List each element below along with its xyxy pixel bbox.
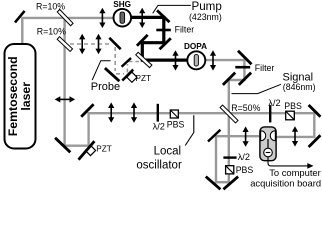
SHG crystal circle U1 bbox=[114, 9, 132, 27]
detector assembly (balanced photodetector) bbox=[260, 127, 276, 161]
mirror M9 probe to dichroic bbox=[122, 58, 131, 67]
PZT actuator (probe) bbox=[127, 72, 137, 82]
wire: dashed probe beam down bbox=[114, 47, 116, 71]
femtosecond laser box bbox=[5, 44, 36, 149]
mirror M16 detection arm up-to-right bbox=[208, 130, 220, 142]
filter F2 (signal) bbox=[235, 66, 250, 69]
beamsplitter R=10% BS2 bbox=[57, 37, 72, 52]
svg-text:Femtosecond: Femtosecond bbox=[6, 56, 20, 136]
pointer line for Probe label bbox=[92, 61, 110, 80]
mirror M20 right bottom bbox=[309, 135, 321, 147]
wire: left detection arm vertical bbox=[215, 135, 217, 183]
svg-text:λ/2: λ/2 bbox=[268, 98, 280, 108]
polarization arrow A11 (horizontal, LO down beam) bbox=[55, 96, 75, 102]
svg-text:Local: Local bbox=[154, 145, 182, 157]
polarization arrow A6 bbox=[210, 50, 216, 70]
polarization arrow A10 bbox=[292, 126, 298, 146]
wire: dashed probe beam right into dichroic bbox=[129, 61, 140, 63]
svg-text:PBS: PBS bbox=[167, 119, 185, 129]
wire: pump beam down through filter bbox=[162, 16, 165, 44]
mirror M18 bottom V right bbox=[223, 177, 238, 190]
mirror M1 top-left bbox=[15, 11, 25, 23]
svg-text:Probe: Probe bbox=[91, 81, 120, 93]
pointer line for Signal label bbox=[232, 84, 282, 93]
wire: signal beam down to 50% beamsplitter and detection arm bbox=[228, 79, 230, 184]
svg-text:Filter: Filter bbox=[255, 63, 275, 73]
mirror M19 right top bbox=[309, 105, 321, 117]
polarization arrow A4 bbox=[95, 34, 101, 54]
wire: laser output beam up from laser box bbox=[21, 18, 23, 45]
svg-text:SHG: SHG bbox=[113, 0, 131, 9]
wire: signal beam out of DOPA (gray) bbox=[205, 59, 246, 61]
filter F1 (pump) bbox=[156, 29, 171, 32]
PBS cube P3 (right arm) bbox=[286, 111, 295, 120]
mirror M7 probe lower-left bbox=[105, 68, 120, 81]
svg-text:oscillator: oscillator bbox=[136, 160, 182, 172]
polarization arrow A1 bbox=[99, 8, 105, 28]
wire: pump beam down to dichroic bbox=[141, 41, 144, 61]
wire: dashed probe beam right to PZT bbox=[116, 73, 124, 75]
dichroic beamsplitter at pump/probe junction bbox=[136, 52, 152, 67]
waveplate lambda/2 W1 (LO path) bbox=[157, 104, 159, 122]
polarization arrow A7 bbox=[108, 102, 114, 122]
wire: bottom horizontal between V mirrors bbox=[215, 181, 230, 183]
polarization arrow A2 bbox=[139, 8, 145, 28]
polarization arrow A3 bbox=[79, 34, 85, 54]
wire: right arm into detector right diode bbox=[276, 136, 316, 138]
pointer line for Local oscillator label bbox=[185, 115, 194, 145]
svg-text:laser: laser bbox=[19, 82, 33, 111]
polarization arrow A5 bbox=[172, 50, 178, 70]
mirror M3 pump right-to-left corner bbox=[160, 38, 171, 49]
svg-text:R=10%: R=10% bbox=[36, 1, 65, 11]
PZT actuator (LO) bbox=[85, 145, 95, 155]
mirror M6 probe upper bbox=[109, 38, 120, 49]
beamsplitter R=50% bbox=[220, 105, 238, 123]
wire: LO up from PZT mirror bbox=[87, 112, 89, 147]
PBS cube P2 (down arm) bbox=[226, 166, 234, 174]
mirror M11 signal right lower bbox=[239, 73, 251, 85]
svg-text:PZT: PZT bbox=[136, 74, 151, 83]
mirror M8 probe PZT mirror bbox=[122, 70, 133, 81]
mirror M14 LO PZT mirror bbox=[79, 141, 95, 160]
wire: LO horizontal to R=50% beamsplitter and beyond to right mirror bbox=[87, 112, 315, 114]
svg-text:Filter: Filter bbox=[175, 25, 195, 35]
svg-text:acquisition board: acquisition board bbox=[250, 177, 321, 188]
mirror M12 signal left lower bbox=[223, 73, 235, 85]
svg-text:(846nm): (846nm) bbox=[283, 82, 316, 92]
wire: dashed probe beam up from PZT bbox=[126, 64, 128, 73]
DOPA crystal circle U2 bbox=[187, 51, 205, 69]
svg-text:R=50%: R=50% bbox=[231, 103, 260, 113]
mirror M4 pump left corner bbox=[137, 35, 148, 46]
svg-text:(423nm): (423nm) bbox=[189, 12, 222, 22]
PBS cube P1 (LO path) bbox=[170, 110, 178, 118]
wire: dashed probe beam horizontal from BS2 bbox=[70, 43, 112, 45]
beamsplitter R=10% BS1 bbox=[57, 10, 73, 26]
polarization arrow A9 bbox=[243, 126, 249, 146]
svg-text:PBS: PBS bbox=[236, 165, 254, 175]
mirror M15 LO corner up-to-right bbox=[81, 104, 93, 116]
polarization arrow A8 bbox=[131, 102, 137, 122]
svg-text:λ/2: λ/2 bbox=[238, 152, 250, 162]
svg-text:Pump: Pump bbox=[192, 0, 222, 13]
wire: LO tap beam down from R=10% BS1 bbox=[63, 17, 65, 147]
wire: pump beam (black) SHG to corner bbox=[130, 16, 165, 19]
mirror M17 bottom V left bbox=[206, 177, 221, 190]
wire: pump beam leftward bbox=[142, 41, 165, 44]
svg-text:λ/2: λ/2 bbox=[153, 122, 165, 132]
wire: signal beam leftward between mirrors bbox=[229, 79, 246, 81]
waveplate lambda/2 W3 (right arm) bbox=[269, 105, 271, 122]
mirror M2 pump top corner bbox=[157, 10, 170, 22]
svg-text:PBS: PBS bbox=[284, 101, 302, 111]
wire: LO bottom horizontal to PZT mirror bbox=[64, 144, 90, 146]
wire: right arm down bbox=[313, 112, 315, 138]
waveplate lambda/2 W2 (down arm) bbox=[223, 156, 236, 158]
pointer line for Pump label bbox=[153, 5, 191, 13]
svg-text:DOPA: DOPA bbox=[184, 42, 207, 51]
wire: pump beam into DOPA bbox=[141, 58, 189, 61]
mirror M13 LO bottom-left bbox=[55, 138, 70, 153]
wire: signal beam down through filter2 bbox=[243, 59, 245, 80]
wire: left detection arm into detector left diode bbox=[215, 135, 261, 137]
wire: main beam horizontal to SHG bbox=[21, 17, 114, 19]
output wire with arrow to acquisition bbox=[268, 157, 314, 169]
svg-text:PZT: PZT bbox=[96, 145, 111, 154]
svg-text:R=10%: R=10% bbox=[37, 26, 66, 36]
mirror M10 signal turn-down bbox=[238, 51, 252, 64]
